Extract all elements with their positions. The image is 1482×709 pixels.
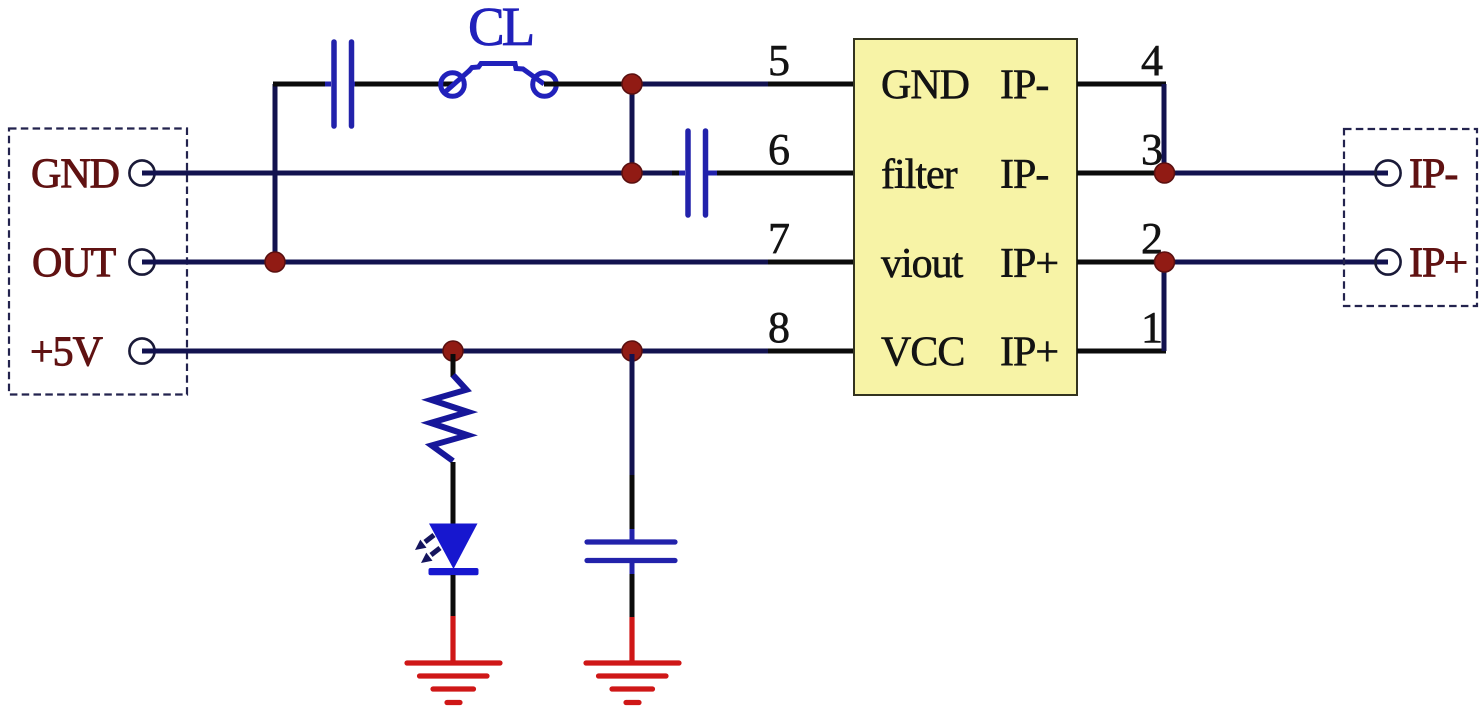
wire top row to cap C1	[273, 82, 331, 87]
wire IP- run	[1164, 171, 1388, 176]
wire OUT row to pin 7	[768, 260, 855, 265]
svg-text:1: 1	[1141, 303, 1163, 352]
connector J1 dashed box	[9, 129, 187, 395]
svg-text:IP+: IP+	[1000, 330, 1058, 376]
wire pin 1 riser	[1162, 262, 1167, 351]
wire LED cathode lead	[451, 575, 456, 616]
junction node GND row	[622, 163, 642, 183]
terminal pin +5V	[129, 338, 154, 363]
pin label viout (U1)	[881, 241, 964, 287]
junction node IP-	[1155, 163, 1175, 183]
wire GND row to filter cap	[632, 171, 684, 176]
capacitor C1	[325, 42, 363, 126]
capacitor C3	[587, 542, 675, 561]
jumper CL	[441, 64, 557, 97]
svg-text:4: 4	[1141, 36, 1163, 85]
pin number 8	[768, 303, 790, 352]
wire R1 to LED	[451, 462, 456, 526]
wire cap C1 to jumper CL	[355, 82, 453, 87]
wire R1 top lead	[451, 354, 456, 377]
svg-text:IP-: IP-	[1409, 152, 1457, 198]
svg-text:6: 6	[768, 125, 790, 174]
pin number 5	[768, 36, 790, 85]
wire jumper CL to node	[544, 82, 632, 87]
wire +5V row to pin 8	[768, 349, 855, 354]
wire C3 top lead navy	[630, 354, 635, 475]
ground LED branch	[407, 663, 500, 703]
wire top node riser	[630, 84, 635, 173]
svg-text:IP+: IP+	[1000, 241, 1058, 287]
svg-text:7: 7	[768, 214, 790, 263]
pin label IP- pin3 (U1)	[1000, 152, 1048, 198]
wire GND row	[142, 171, 632, 176]
wire pin 4 drop	[1162, 84, 1167, 173]
svg-text:GND: GND	[881, 63, 969, 109]
wire LED ground lead	[450, 616, 455, 662]
resistor R1	[431, 375, 468, 461]
wire pin 2	[1077, 260, 1164, 265]
label CL	[468, 0, 533, 57]
wire OUT riser	[273, 84, 278, 262]
capacitor C2 (filter)	[679, 131, 717, 215]
junction node R1 tap	[443, 341, 463, 361]
wire IP+ run	[1164, 260, 1388, 265]
connector J2 dashed box	[1344, 129, 1477, 306]
terminal pin IP+	[1375, 249, 1400, 274]
pin number 1	[1141, 303, 1163, 352]
label IP+ (J2)	[1409, 241, 1467, 287]
svg-text:OUT: OUT	[32, 241, 116, 287]
label IP- (J2)	[1409, 152, 1457, 198]
wire C3 ground lead	[629, 617, 634, 662]
svg-text:8: 8	[768, 303, 790, 352]
pin number 6	[768, 125, 790, 174]
terminal pin IP-	[1375, 160, 1400, 185]
svg-text:viout: viout	[881, 241, 964, 287]
wire +5V row	[142, 349, 768, 354]
svg-text:CL: CL	[468, 0, 533, 57]
svg-text:+5V: +5V	[30, 330, 103, 376]
pin number 3	[1141, 125, 1163, 174]
junction node IP+	[1155, 252, 1175, 272]
pin number 4	[1141, 36, 1163, 85]
pin label IP+ pin2 (U1)	[1000, 241, 1058, 287]
IC U1 body	[854, 39, 1077, 395]
label +5V (J1)	[30, 330, 103, 376]
terminal pin GND	[129, 160, 154, 185]
pin label IP- pin4 (U1)	[1000, 63, 1048, 109]
svg-text:IP-: IP-	[1000, 152, 1048, 198]
pin label GND (U1)	[881, 63, 969, 109]
wire pin 1	[1077, 349, 1166, 354]
wire node to pin 5	[632, 82, 768, 87]
pin number 7	[768, 214, 790, 263]
ground C3 branch	[586, 663, 679, 703]
svg-text:GND: GND	[31, 152, 119, 198]
wire C3 bottom stub blue	[630, 562, 635, 574]
junction node C3 tap	[622, 341, 642, 361]
wire pin 4	[1077, 82, 1166, 87]
wire filter cap to pin 6	[710, 171, 855, 176]
wire C3 top lead black	[630, 475, 635, 529]
wire C3 top stub blue	[630, 529, 635, 542]
svg-text:VCC: VCC	[881, 330, 964, 376]
svg-text:filter: filter	[881, 152, 958, 198]
svg-text:IP-: IP-	[1000, 63, 1048, 109]
junction node OUT riser	[265, 252, 285, 272]
pin label IP+ pin1 (U1)	[1000, 330, 1058, 376]
junction node top	[622, 74, 642, 94]
wire pin 3	[1077, 171, 1164, 176]
wire C3 bottom lead black	[630, 574, 635, 617]
label GND (J1)	[31, 152, 119, 198]
pin number 2	[1141, 214, 1163, 263]
wire OUT row	[142, 260, 768, 265]
pin label VCC (U1)	[881, 330, 964, 376]
wire pin 5 stub	[768, 82, 855, 87]
LED D1	[415, 524, 479, 576]
svg-text:IP+: IP+	[1409, 241, 1467, 287]
terminal pin OUT	[129, 249, 154, 274]
pin label filter (U1)	[881, 152, 958, 198]
svg-text:5: 5	[768, 36, 790, 85]
label OUT (J1)	[32, 241, 116, 287]
